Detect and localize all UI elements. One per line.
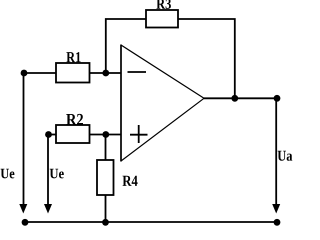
label Ua bbox=[278, 151, 293, 161]
node rail left bbox=[22, 219, 29, 226]
wire Ue1 arrow shaft bbox=[23, 73, 25, 205]
plus sign non-inverting input bbox=[130, 125, 148, 143]
label R1 bbox=[66, 52, 80, 62]
label R2 bbox=[66, 114, 83, 125]
resistor R4 bbox=[97, 160, 114, 195]
node inverting junction bbox=[102, 70, 109, 77]
wire feedback right segment bbox=[178, 19, 235, 98]
resistor R3 bbox=[146, 10, 178, 28]
op-amp U1 bbox=[121, 45, 204, 162]
node rail right bbox=[274, 219, 281, 226]
node non-inverting junction bbox=[102, 131, 109, 138]
wire input left to R1 bbox=[24, 72, 56, 74]
resistor R2 bbox=[56, 125, 90, 143]
wire R2 to non-inverting input bbox=[90, 134, 122, 136]
wire node to R4 bbox=[105, 135, 107, 161]
wire bottom rail bbox=[25, 221, 277, 223]
wire Ue2 arrow shaft bbox=[47, 135, 49, 206]
node output right bbox=[274, 95, 281, 102]
wire output bbox=[204, 97, 277, 99]
node input1 bbox=[21, 70, 28, 77]
label Ue bbox=[1, 169, 15, 179]
node feedback-output bbox=[231, 95, 238, 102]
label R3 bbox=[156, 0, 171, 9]
label Ue bbox=[50, 169, 64, 179]
arrowhead Ue1 bbox=[19, 204, 27, 214]
arrowhead Ue2 bbox=[44, 204, 52, 214]
minus sign inverting input bbox=[128, 71, 147, 73]
wire Ua arrow shaft bbox=[275, 98, 277, 205]
node input2 bbox=[45, 131, 52, 138]
wire R1 to inverting input bbox=[90, 72, 122, 74]
wire R4 to ground rail bbox=[105, 195, 107, 222]
arrowhead Ua bbox=[272, 204, 280, 214]
node rail R4 bbox=[102, 219, 109, 226]
wire input2 to R2 bbox=[49, 134, 57, 136]
resistor R1 bbox=[56, 63, 90, 83]
label R4 bbox=[123, 176, 138, 186]
wire feedback left segment bbox=[106, 19, 146, 73]
